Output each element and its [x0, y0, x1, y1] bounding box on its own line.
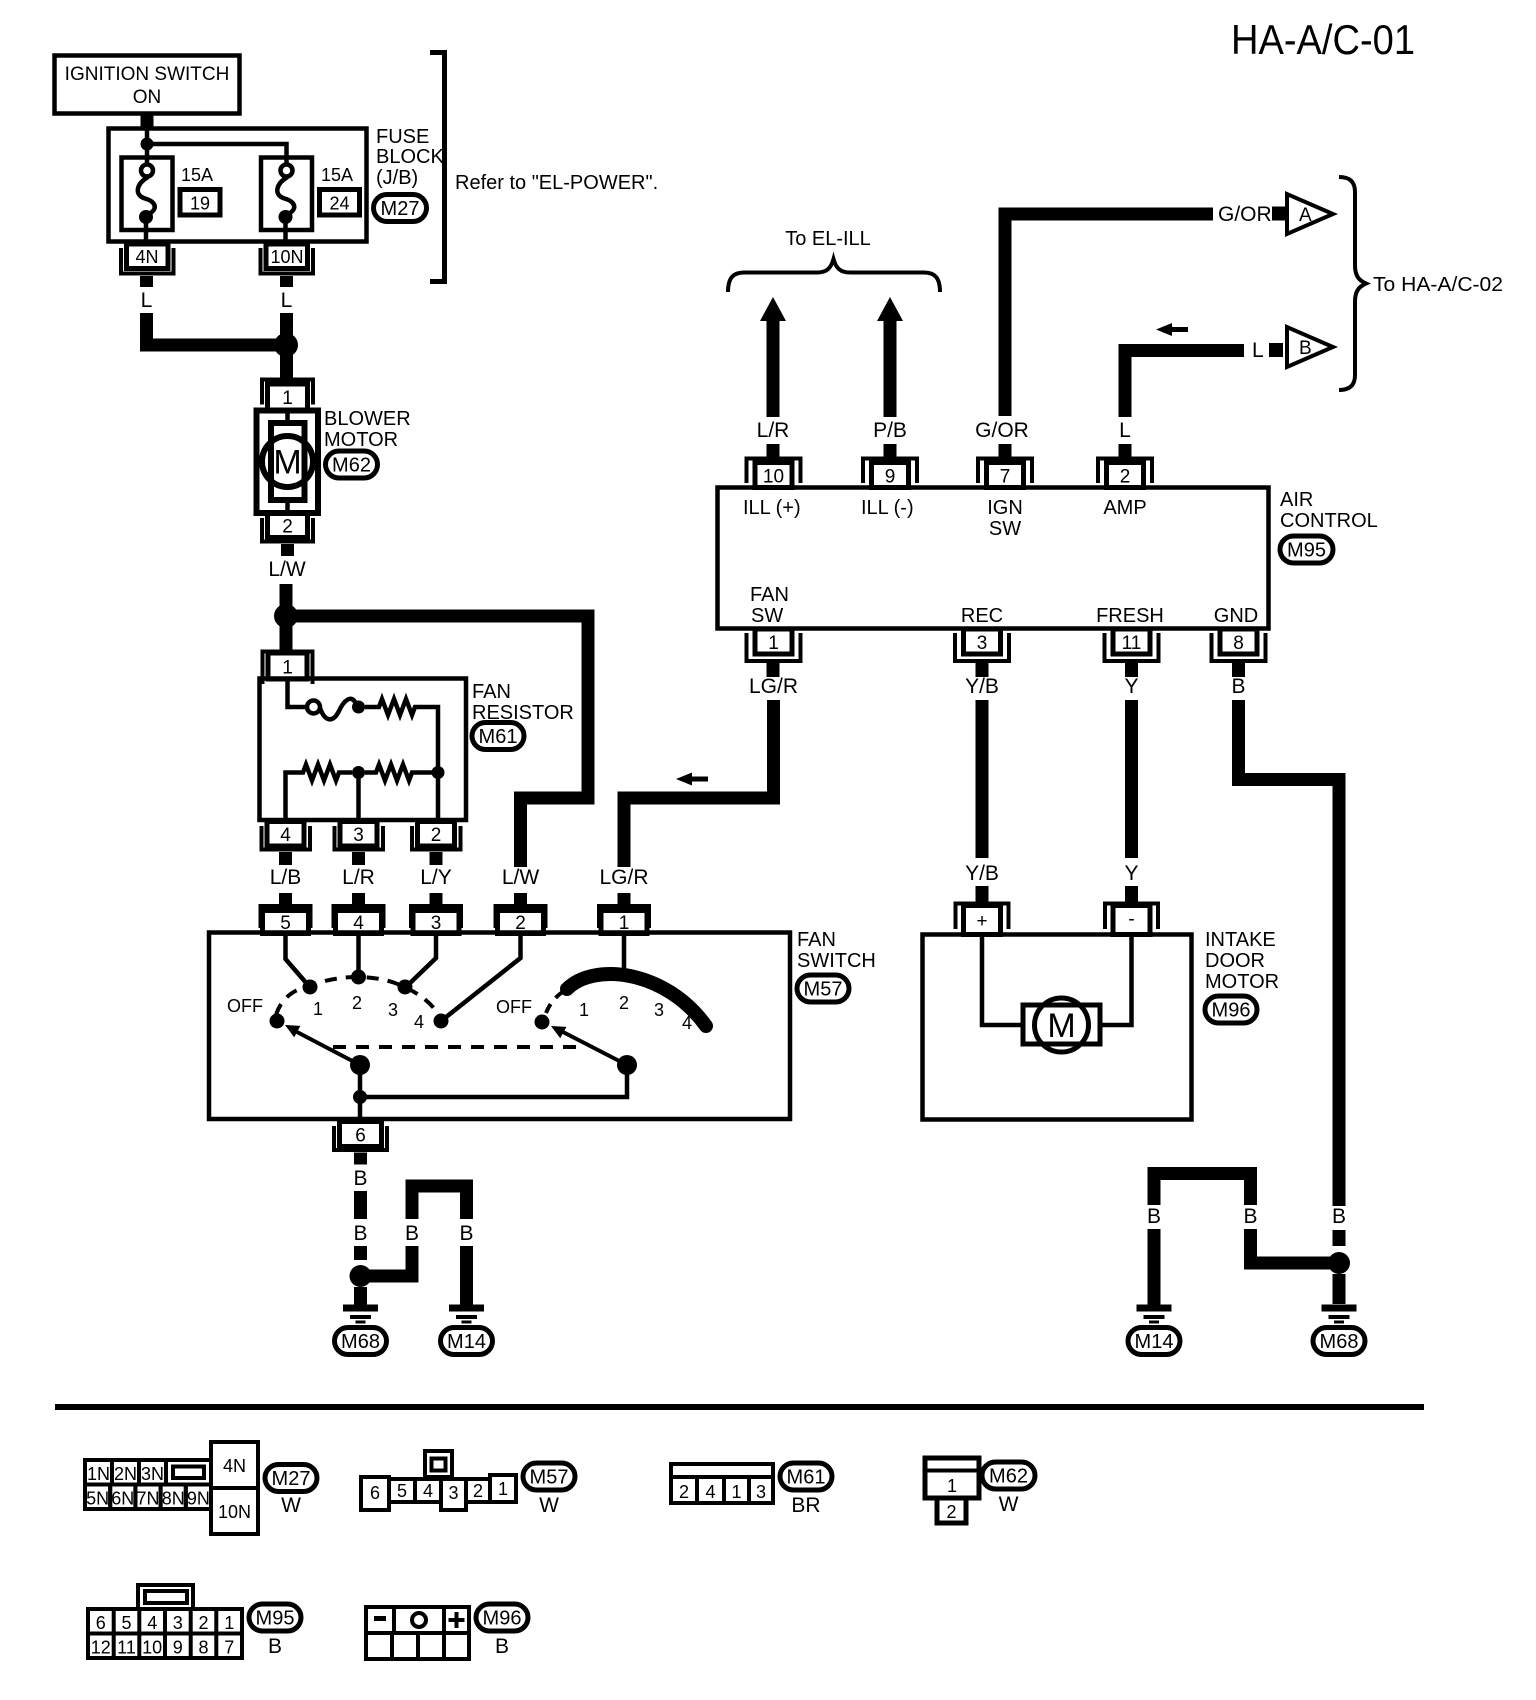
label 3 right	[654, 1000, 664, 1020]
svg-text:4: 4	[705, 1482, 715, 1502]
svg-text:W: W	[281, 1494, 301, 1517]
svg-text:G/OR: G/OR	[975, 419, 1029, 442]
svg-text:1: 1	[498, 1479, 508, 1499]
svg-text:M61: M61	[479, 726, 518, 748]
arrow to EL-ILL (P/B)	[877, 297, 903, 417]
bracket for EL-POWER reference	[430, 53, 445, 282]
fuse block box	[109, 129, 367, 242]
node fan resistor right	[432, 766, 445, 820]
pin label REC	[961, 605, 1003, 627]
wire color label G/OR (pin 7)	[975, 419, 1029, 442]
connector ref M96 oval	[1205, 996, 1257, 1023]
wire Y/B air control to intake motor (heavy)	[976, 700, 989, 858]
connector pin 3 fan resistor	[335, 822, 384, 866]
svg-text:1: 1	[579, 1000, 589, 1020]
fuse 15A 19 element	[138, 165, 155, 247]
svg-text:2: 2	[198, 1613, 208, 1633]
contact 1 left	[303, 980, 318, 995]
fan switch box	[209, 933, 790, 1120]
connector color label W (M62)	[999, 1493, 1019, 1516]
svg-text:W: W	[999, 1493, 1019, 1516]
svg-text:1: 1	[768, 633, 779, 654]
svg-text:L: L	[1119, 419, 1131, 442]
wire color label B (to M68)	[353, 1222, 367, 1245]
svg-text:3: 3	[654, 1000, 664, 1020]
label 4 left	[414, 1012, 424, 1032]
svg-text:A: A	[1299, 205, 1312, 226]
ground symbol M68 right	[1322, 1305, 1357, 1324]
wire B air control to ground (heavy)	[1239, 700, 1340, 1206]
pin label ILL (-)	[861, 497, 914, 519]
svg-text:HA-A/C-01: HA-A/C-01	[1231, 16, 1415, 63]
wire jumper right leg to ground M14	[460, 1246, 473, 1306]
svg-text:4N: 4N	[135, 247, 158, 267]
wire junction to ground M68 right	[1333, 1274, 1346, 1304]
connector pin 2 fan resistor	[412, 822, 461, 866]
off-page triangle A	[1287, 194, 1333, 234]
svg-text:4: 4	[280, 825, 291, 846]
dashed rotor arc left switch	[276, 977, 439, 1016]
blower motor M62	[257, 408, 319, 515]
wire color label Y/B (air control pin 3)	[965, 675, 999, 698]
intake door motor box	[923, 935, 1192, 1120]
motor M intake door	[982, 935, 1132, 1052]
air control box	[718, 488, 1269, 629]
component label FAN RESISTOR	[472, 681, 574, 724]
connector face M95 grid	[88, 1609, 242, 1658]
wire fan switch pin 5 to contact 1	[286, 933, 309, 985]
svg-text:L/R: L/R	[342, 866, 375, 889]
svg-text:B: B	[1299, 338, 1312, 359]
svg-text:M57: M57	[804, 979, 843, 1001]
connector face M95 key tab	[138, 1585, 193, 1609]
svg-text:G/OR: G/OR	[1218, 203, 1272, 226]
connector pin 1 fan resistor	[263, 652, 313, 685]
svg-text:BLOWER: BLOWER	[324, 408, 411, 430]
svg-text:B: B	[495, 1635, 509, 1658]
svg-text:SWITCH: SWITCH	[797, 950, 876, 972]
connector pin 1 air control	[747, 629, 801, 677]
svg-text:8: 8	[198, 1638, 208, 1658]
svg-text:B: B	[353, 1167, 367, 1190]
svg-text:M95: M95	[256, 1608, 295, 1630]
pin label FRESH	[1096, 605, 1164, 627]
connector pin + intake door motor	[956, 886, 1009, 935]
svg-text:M96: M96	[483, 1608, 522, 1630]
svg-text:OFF: OFF	[496, 997, 532, 1017]
ground jumper U wire right	[1154, 1174, 1251, 1206]
connector pin 9 air control	[863, 444, 917, 488]
component label BLOWER MOTOR	[324, 408, 411, 451]
svg-text:M: M	[1047, 1007, 1075, 1045]
ground ref M68 oval right	[1313, 1328, 1365, 1355]
svg-text:M95: M95	[1287, 540, 1326, 562]
svg-text:12: 12	[91, 1638, 111, 1658]
svg-text:9: 9	[173, 1638, 183, 1658]
svg-text:+: +	[976, 911, 987, 932]
svg-text:10N: 10N	[218, 1502, 251, 1522]
node ground junction M68 right	[1328, 1252, 1350, 1274]
off-page triangle B	[1287, 327, 1333, 367]
wire color label LG/R (fan switch pin 1)	[599, 866, 648, 889]
wire color label Y (intake motor -)	[1124, 862, 1138, 885]
ground ref M14 oval left	[441, 1328, 493, 1355]
wire blower pin2 to L/W junction	[280, 584, 293, 606]
connector pin 4 fan switch	[334, 906, 384, 934]
fuse 15A 24 element	[277, 165, 294, 247]
fuse number box 19	[180, 190, 220, 216]
wire color label L/R	[757, 419, 790, 442]
svg-text:(J/B): (J/B)	[376, 167, 418, 189]
wire color label L/Y	[420, 866, 452, 889]
svg-text:2: 2	[473, 1481, 483, 1501]
svg-text:10: 10	[142, 1638, 162, 1658]
connector ref M27 oval (face)	[265, 1465, 317, 1492]
label 2 left	[352, 993, 362, 1013]
connector pin 6 fan switch	[334, 1122, 387, 1165]
connector face M62	[925, 1458, 979, 1523]
wire color label L/W	[268, 558, 306, 581]
component label INTAKE DOOR MOTOR	[1205, 929, 1279, 993]
wire jumper left leg to junction	[366, 1246, 412, 1276]
fuse 15A 19 box	[122, 158, 173, 231]
svg-text:BR: BR	[791, 1494, 820, 1517]
wire junction to ground M68 left	[354, 1287, 367, 1306]
svg-text:ILL (+): ILL (+)	[743, 497, 801, 519]
svg-text:7N: 7N	[136, 1489, 159, 1509]
wire color label L (4N)	[141, 289, 153, 312]
svg-text:11: 11	[117, 1638, 136, 1658]
svg-text:M14: M14	[447, 1331, 486, 1353]
svg-text:To HA-A/C-02: To HA-A/C-02	[1373, 274, 1503, 296]
wire color label L/W (fan switch pin 2)	[502, 866, 540, 889]
separator line	[55, 1404, 1424, 1410]
brace over EL-ILL arrows	[728, 259, 940, 292]
connector face M27 4N/10N cell	[211, 1442, 258, 1534]
pin label FAN SW	[750, 584, 789, 627]
svg-text:REC: REC	[961, 605, 1003, 627]
wire color label B (pin 6)	[353, 1167, 367, 1190]
connector face M57	[361, 1451, 516, 1510]
wire color label B (jumper right leg)	[459, 1222, 473, 1245]
svg-text:10: 10	[763, 467, 784, 488]
svg-text:5: 5	[121, 1613, 131, 1633]
svg-text:15A: 15A	[181, 165, 213, 185]
pin label AMP	[1103, 497, 1146, 519]
wire color label B (jumper left leg)	[405, 1222, 419, 1245]
connector pin 4 fan resistor	[262, 822, 311, 866]
svg-text:Y: Y	[1124, 862, 1138, 885]
wire color label B (air control pin 8)	[1231, 675, 1245, 698]
svg-text:B: B	[405, 1222, 419, 1245]
svg-text:1: 1	[731, 1482, 741, 1502]
svg-text:5: 5	[397, 1481, 407, 1501]
svg-text:L/Y: L/Y	[420, 866, 452, 889]
connector ref M57 oval	[797, 975, 849, 1002]
svg-text:2: 2	[282, 517, 293, 538]
svg-text:19: 19	[190, 194, 210, 214]
arrow to EL-ILL (L/R)	[760, 297, 786, 417]
svg-text:B: B	[1332, 1205, 1346, 1228]
wire B into junction	[1333, 1230, 1346, 1246]
svg-text:FAN: FAN	[750, 584, 789, 606]
svg-text:6: 6	[96, 1613, 106, 1633]
svg-text:M68: M68	[1320, 1331, 1359, 1353]
wire 10N to junction	[280, 313, 293, 335]
svg-text:4N: 4N	[223, 1456, 246, 1476]
svg-text:FRESH: FRESH	[1096, 605, 1164, 627]
wire L/W junction to fan resistor pin 1	[280, 626, 293, 653]
connector pin 2 blower motor	[262, 513, 313, 556]
svg-text:B: B	[268, 1635, 282, 1658]
ground ref M68 oval left	[335, 1328, 387, 1355]
terminal stub A	[1272, 207, 1286, 221]
wire color label L/R	[342, 866, 375, 889]
svg-text:1: 1	[282, 388, 293, 409]
connector face M96	[366, 1607, 469, 1659]
connector pin 1 blower motor	[262, 380, 313, 411]
wire pivot left to pin 6	[358, 1065, 363, 1119]
title HA-A/C-01	[1231, 16, 1415, 63]
wire color label G/OR (top)	[1218, 203, 1272, 226]
connector color label W (M27)	[281, 1494, 301, 1517]
svg-text:3: 3	[448, 1483, 458, 1503]
connector pin 4N	[121, 244, 174, 287]
label 4 right	[682, 1013, 692, 1033]
connector ref M62 oval (face)	[982, 1462, 1035, 1489]
svg-text:M68: M68	[341, 1331, 380, 1353]
wire inside fuse block	[147, 128, 287, 165]
wire color label B (to M68 right)	[1332, 1205, 1346, 1228]
svg-text:Y: Y	[1124, 675, 1138, 698]
note To HA-A/C-02	[1373, 274, 1503, 296]
ground ref M14 oval right	[1128, 1328, 1180, 1355]
wire color label B (right jumper left leg)	[1147, 1205, 1161, 1228]
svg-text:Y/B: Y/B	[965, 862, 999, 885]
connector pin 1 fan switch	[599, 906, 649, 934]
wire color label Y/B (intake motor +)	[965, 862, 999, 885]
wire stubs into fan switch pins	[279, 893, 631, 907]
connector pin 10N	[261, 244, 314, 287]
terminal stub B	[1269, 343, 1283, 357]
svg-text:4: 4	[147, 1613, 157, 1633]
svg-text:10N: 10N	[270, 247, 303, 267]
svg-text:2: 2	[619, 993, 629, 1013]
wire color label L/B	[270, 866, 302, 889]
svg-text:7: 7	[1000, 467, 1011, 488]
svg-text:3: 3	[173, 1613, 183, 1633]
svg-text:24: 24	[329, 194, 349, 214]
mechanical link dashed line	[333, 1045, 581, 1049]
svg-text:2: 2	[679, 1482, 689, 1502]
wire Y air control to intake motor (heavy)	[1125, 700, 1138, 858]
label 1 left	[313, 999, 323, 1019]
connector ref M95 oval (face)	[249, 1604, 301, 1631]
resistor R2 (lower left)	[286, 765, 353, 821]
svg-text:1: 1	[224, 1613, 234, 1633]
svg-text:LG/R: LG/R	[749, 675, 798, 698]
fuse block label FUSE BLOCK (J/B)	[376, 126, 444, 189]
svg-text:M62: M62	[989, 1466, 1028, 1488]
connector pin 2 fan switch	[496, 906, 546, 934]
wire fan switch pin 1 to arc	[622, 933, 627, 972]
ignition switch box	[55, 56, 240, 114]
pin label IGN SW	[987, 497, 1023, 540]
resistor R1 (top row)	[365, 699, 438, 766]
pin label ILL (+)	[743, 497, 801, 519]
svg-text:DOOR: DOOR	[1205, 950, 1265, 972]
node wiper pivot right	[617, 1055, 637, 1075]
wire G/OR to HA-A/C-02 A (heavy)	[1005, 214, 1213, 416]
wire LG/R air control to fan switch (heavy)	[624, 700, 774, 867]
svg-text:15A: 15A	[321, 165, 353, 185]
wire into M68 junction	[354, 1246, 367, 1260]
label OFF left	[227, 996, 263, 1016]
node junction above blower motor	[274, 333, 298, 357]
fan resistor box	[260, 679, 467, 821]
node pin6 junction	[353, 1090, 367, 1104]
connector pin 8 air control	[1212, 629, 1266, 677]
fuse 15A 24 box	[261, 158, 312, 231]
svg-text:3: 3	[353, 825, 364, 846]
svg-text:5N: 5N	[86, 1489, 109, 1509]
svg-text:3N: 3N	[141, 1464, 164, 1484]
svg-text:6N: 6N	[111, 1489, 134, 1509]
node fuse feed junction	[141, 138, 154, 151]
svg-text:M: M	[273, 444, 301, 482]
connector pin 3 fan switch	[411, 906, 461, 934]
svg-text:LG/R: LG/R	[599, 866, 648, 889]
connector ref M27 oval	[374, 195, 427, 222]
svg-text:To EL-ILL: To EL-ILL	[785, 228, 871, 250]
contact 4 left	[434, 1014, 449, 1029]
svg-text:8N: 8N	[162, 1489, 185, 1509]
svg-text:2N: 2N	[114, 1464, 137, 1484]
wire color label B (right jumper right leg)	[1243, 1205, 1257, 1228]
svg-text:B: B	[353, 1222, 367, 1245]
wire L/W junction to fan switch pin 2 (heavy)	[286, 616, 588, 867]
connector pin 2 air control	[1098, 444, 1152, 488]
svg-text:IGNITION SWITCH: IGNITION SWITCH	[65, 64, 230, 85]
connector ref M62 oval	[326, 451, 378, 478]
svg-text:11: 11	[1122, 633, 1142, 654]
svg-text:L/W: L/W	[268, 558, 306, 581]
svg-text:M57: M57	[530, 1467, 569, 1489]
svg-text:FAN: FAN	[797, 929, 836, 951]
svg-text:4: 4	[682, 1013, 692, 1033]
connector color label BR (M61)	[791, 1494, 820, 1517]
svg-text:FAN: FAN	[472, 681, 511, 703]
svg-text:M27: M27	[381, 198, 420, 220]
svg-text:ILL (-): ILL (-)	[861, 497, 914, 519]
wire pin 6 ground segment	[354, 1191, 367, 1219]
wire fan switch pin 3 to contact 3	[408, 933, 436, 985]
svg-text:BLOCK: BLOCK	[376, 146, 444, 168]
wire color label Y (air control pin 11)	[1124, 675, 1138, 698]
wire color label L (pin 2)	[1119, 419, 1131, 442]
svg-text:L: L	[1252, 339, 1264, 362]
svg-text:6: 6	[370, 1483, 380, 1503]
fuse number box 24	[320, 190, 360, 216]
rotor arc right switch (thick)	[567, 974, 706, 1026]
svg-text:7: 7	[224, 1638, 234, 1658]
brace To HA-A/C-02	[1339, 177, 1366, 390]
ground jumper U wire left	[412, 1186, 467, 1219]
connector pin 5 fan switch	[261, 906, 311, 934]
svg-text:4: 4	[414, 1012, 424, 1032]
svg-text:M61: M61	[787, 1467, 826, 1489]
component label AIR CONTROL	[1280, 489, 1378, 532]
svg-text:W: W	[539, 1494, 559, 1517]
arrow marker on LG/R wire	[676, 773, 708, 786]
connector pin 10 air control	[747, 444, 801, 488]
svg-text:L/W: L/W	[502, 866, 540, 889]
svg-text:CONTROL: CONTROL	[1280, 510, 1378, 532]
wire color label P/B	[873, 419, 907, 442]
connector face M27 grid	[85, 1460, 211, 1509]
svg-text:1N: 1N	[87, 1464, 110, 1484]
wire 4N to junction	[147, 313, 281, 345]
svg-text:B: B	[1147, 1205, 1161, 1228]
svg-text:M27: M27	[272, 1468, 311, 1490]
svg-text:9: 9	[885, 467, 896, 488]
svg-text:GND: GND	[1214, 605, 1258, 627]
connector pin 3 air control	[955, 629, 1009, 677]
wire right jumper left leg to ground M14	[1148, 1229, 1161, 1306]
connector color label B (M96)	[495, 1635, 509, 1658]
svg-text:-: -	[1128, 909, 1134, 930]
wire right jumper right leg to junction	[1251, 1229, 1334, 1263]
ground symbol M68 left	[343, 1305, 378, 1324]
svg-text:2: 2	[946, 1502, 956, 1522]
svg-text:INTAKE: INTAKE	[1205, 929, 1276, 951]
wire link between pivots	[360, 1065, 627, 1097]
value label 15A fuse 24	[321, 165, 353, 185]
wire color label L (10N)	[281, 289, 293, 312]
node ground junction M68 left	[350, 1265, 372, 1287]
svg-text:3: 3	[977, 633, 988, 654]
connector pin 7 air control	[978, 444, 1032, 488]
arrow marker on L wire	[1156, 323, 1188, 336]
svg-text:1: 1	[313, 999, 323, 1019]
svg-text:1: 1	[282, 658, 293, 679]
svg-text:OFF: OFF	[227, 996, 263, 1016]
resistor R3 (lower right)	[365, 765, 432, 781]
svg-text:2: 2	[431, 825, 442, 846]
svg-text:L: L	[141, 289, 153, 312]
dashed stub right OFF	[546, 991, 564, 1013]
svg-text:6: 6	[355, 1126, 366, 1147]
connector pin - intake door motor	[1105, 886, 1158, 935]
label 2 right	[619, 993, 629, 1013]
svg-text:B: B	[1231, 675, 1245, 698]
svg-text:P/B: P/B	[873, 419, 907, 442]
svg-text:MOTOR: MOTOR	[324, 429, 398, 451]
contact OFF right	[535, 1015, 550, 1030]
svg-text:Refer to "EL-POWER".: Refer to "EL-POWER".	[455, 172, 658, 194]
svg-text:IGN: IGN	[987, 497, 1023, 519]
ground symbol M14 left	[449, 1305, 484, 1324]
svg-text:8: 8	[1233, 633, 1244, 654]
connector pin 11 air control	[1105, 629, 1159, 677]
contact OFF left	[270, 1014, 285, 1029]
svg-text:3: 3	[756, 1482, 766, 1502]
svg-text:4: 4	[423, 1481, 433, 1501]
svg-text:AMP: AMP	[1103, 497, 1146, 519]
svg-text:Y/B: Y/B	[965, 675, 999, 698]
node fan resistor mid	[352, 766, 365, 820]
svg-text:SW: SW	[989, 518, 1021, 540]
